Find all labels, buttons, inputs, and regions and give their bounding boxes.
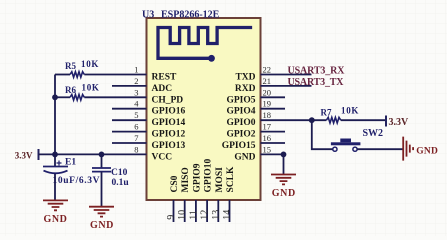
svg-text:2: 2: [134, 76, 138, 86]
svg-text:GPIO12: GPIO12: [152, 130, 186, 140]
3.3V power port bar (right): [385, 116, 387, 127]
svg-text:8: 8: [134, 144, 138, 154]
3.3V rail wire to VCC pin 8: [39, 153, 113, 155]
svg-text:10: 10: [177, 210, 188, 220]
wire from left rail to R5: [55, 74, 70, 76]
resistor R6 zigzag: [70, 95, 84, 101]
pin 20 GPIO5 stub: [261, 96, 286, 98]
wire E1 bottom plate to ground: [54, 174, 56, 200]
antenna meander drawing inside U3: [158, 28, 251, 59]
svg-text:10K: 10K: [82, 83, 100, 93]
svg-text:GPIO0: GPIO0: [226, 118, 255, 128]
ground symbol right of SW2 (rotated): [403, 137, 413, 161]
svg-text:6: 6: [134, 122, 138, 132]
svg-text:GND: GND: [416, 146, 438, 156]
svg-text:13: 13: [211, 210, 222, 220]
svg-text:GPIO9: GPIO9: [192, 163, 202, 192]
pin 17 GPIO2 stub: [261, 131, 286, 133]
svg-text:11: 11: [188, 210, 199, 220]
svg-text:14: 14: [222, 210, 233, 220]
svg-text:19: 19: [263, 99, 272, 109]
pin 6 GPIO12 stub: [112, 131, 147, 133]
svg-text:9: 9: [166, 215, 177, 220]
svg-text:5: 5: [134, 110, 138, 120]
svg-text:GPIO14: GPIO14: [152, 118, 186, 128]
svg-text:E1: E1: [65, 157, 76, 167]
antenna feed junction dot: [208, 55, 215, 62]
switch SW2 actuator: [340, 139, 351, 143]
capacitor C10 plates: [92, 168, 111, 172]
svg-text:USART3_RX: USART3_RX: [288, 65, 346, 76]
svg-text:3.3V: 3.3V: [15, 150, 33, 160]
wire from R6 to pin 3: [84, 96, 112, 98]
svg-text:RXD: RXD: [235, 84, 256, 94]
svg-text:10K: 10K: [81, 59, 99, 69]
wire switch to right ground: [357, 148, 403, 150]
svg-text:12: 12: [200, 210, 211, 220]
svg-text:3: 3: [134, 87, 138, 97]
svg-text:GND: GND: [43, 214, 67, 225]
svg-text:GPIO10: GPIO10: [204, 158, 214, 192]
junction dot pin 15 corner: [281, 152, 287, 158]
svg-text:GPIO15: GPIO15: [222, 141, 256, 151]
svg-text:GPIO16: GPIO16: [152, 107, 186, 117]
svg-text:GPIO4: GPIO4: [226, 107, 255, 117]
capacitor E1 polarized plates: [43, 166, 68, 168]
svg-text:7: 7: [134, 133, 138, 143]
svg-text:GPIO13: GPIO13: [152, 141, 186, 151]
svg-text:15: 15: [263, 144, 272, 154]
svg-text:1: 1: [134, 65, 138, 75]
wire from left rail to R6: [55, 96, 70, 98]
svg-text:MOSI: MOSI: [215, 167, 225, 193]
svg-text:SCLK: SCLK: [226, 166, 236, 192]
svg-text:C10: C10: [111, 168, 128, 178]
svg-text:SW2: SW2: [363, 128, 384, 139]
svg-text:10K: 10K: [341, 106, 359, 116]
wire C10 bottom plate to ground: [101, 172, 103, 206]
svg-text:ADC: ADC: [152, 84, 173, 94]
svg-text:R7: R7: [321, 108, 332, 118]
svg-text:GPIO5: GPIO5: [226, 95, 255, 105]
svg-text:R6: R6: [65, 85, 76, 95]
switch SW2 right terminal: [353, 147, 357, 151]
pin 7 GPIO13 stub: [112, 142, 147, 144]
svg-text:USART3_TX: USART3_TX: [288, 77, 345, 88]
svg-text:17: 17: [263, 122, 272, 132]
svg-text:TXD: TXD: [235, 73, 255, 83]
wire junction down to switch: [312, 120, 333, 149]
resistor R5 zigzag: [70, 72, 84, 78]
pin 16 GPIO15 stub: [261, 142, 286, 144]
svg-text:GPIO2: GPIO2: [226, 130, 255, 140]
svg-text:MISO: MISO: [181, 167, 191, 192]
switch SW2 left terminal: [333, 147, 337, 151]
svg-text:18: 18: [263, 110, 272, 120]
IC U3 ESP8266-12E body: [147, 18, 261, 200]
svg-text:GND: GND: [234, 152, 255, 162]
vertical wire joining R5/R6 to 3.3V rail: [54, 75, 56, 155]
switch SW2 contact bar: [331, 142, 361, 145]
svg-text:GND: GND: [90, 220, 114, 231]
pin 10 MISO stub (bottom): [184, 200, 186, 222]
pin 21 RXD stub / wire to net label: [261, 85, 312, 87]
ground symbol below C10: [89, 207, 114, 217]
junction dot R6 tee: [52, 94, 58, 100]
wire rail to E1 top plate: [54, 154, 56, 166]
svg-text:U3: U3: [142, 9, 154, 20]
pin 12 GPIO10 stub (bottom): [206, 200, 208, 222]
pin 1 REST stub: [112, 74, 147, 76]
resistor R7 zigzag: [326, 117, 340, 123]
pin 2 ADC stub: [112, 85, 147, 87]
svg-text:CS0: CS0: [170, 175, 180, 192]
svg-text:10uF/6.3V: 10uF/6.3V: [53, 176, 100, 186]
svg-text:CH_PD: CH_PD: [152, 95, 184, 105]
pin 15 GND stub: [261, 153, 284, 155]
svg-text:R5: R5: [65, 61, 76, 71]
svg-text:20: 20: [263, 87, 272, 97]
E1 plus sign: [57, 161, 62, 166]
ground symbol below pin 15: [271, 175, 296, 185]
ground symbol below E1: [43, 200, 68, 210]
3.3V power port bar (left): [38, 149, 40, 160]
pin 22 TXD stub / wire to net label: [261, 74, 312, 76]
pin 18 GPIO0 stub / wire toward R7: [261, 119, 327, 121]
pin 5 GPIO14 stub: [112, 119, 147, 121]
svg-text:21: 21: [263, 76, 272, 86]
svg-text:ESP8266-12E: ESP8266-12E: [161, 9, 220, 20]
svg-text:16: 16: [263, 133, 272, 143]
wire from R5 to pin 1: [84, 74, 112, 76]
pin 13 MOSI stub (bottom): [217, 200, 219, 222]
junction dot GPIO0/R7/SW2 tee: [309, 117, 315, 123]
svg-text:GND: GND: [272, 188, 296, 199]
pin 14 SCLK stub (bottom): [229, 200, 231, 222]
svg-text:REST: REST: [152, 73, 177, 83]
svg-text:0.1u: 0.1u: [112, 178, 130, 188]
wire R7 to 3.3V bar: [341, 119, 386, 121]
pin 19 GPIO4 stub: [261, 108, 286, 110]
pin 3 CH_PD stub: [112, 96, 147, 98]
svg-text:3.3V: 3.3V: [389, 117, 410, 128]
pin 9 CS0 stub (bottom): [173, 200, 175, 222]
wire pin 15 down to ground: [283, 154, 285, 174]
wire rail to C10 top plate: [101, 154, 103, 168]
svg-text:22: 22: [263, 65, 272, 75]
junction dot rail/C10: [99, 152, 105, 158]
pin 4 GPIO16 stub: [112, 108, 147, 110]
pin 8 VCC stub: [112, 153, 147, 155]
pin 11 GPIO9 stub (bottom): [195, 200, 197, 222]
junction dot rail/E1: [52, 152, 58, 158]
svg-text:VCC: VCC: [152, 152, 173, 162]
